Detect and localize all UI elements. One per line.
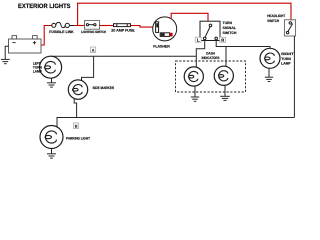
svg-text:HEADLIGHT: HEADLIGHT xyxy=(267,14,286,18)
wire L terminal to left circuit junction xyxy=(196,41,204,68)
ground dash lamp right xyxy=(220,96,230,100)
node junction at x77.5 / red riser to top feed line xyxy=(78,3,291,25)
wire lighting switch to fuse (red) xyxy=(100,25,114,27)
parking light lamp xyxy=(40,126,63,149)
fuse F1 20A xyxy=(114,24,131,27)
wire left bus to left turn lamp xyxy=(51,55,197,57)
svg-text:FLASHER: FLASHER xyxy=(153,44,170,48)
lighting switch S1 xyxy=(85,21,100,30)
svg-text:INDICATORS: INDICATORS xyxy=(202,56,221,60)
svg-text:B: B xyxy=(75,125,78,129)
wire fuse to flasher (red) xyxy=(131,26,153,28)
headlight switch S3 xyxy=(284,20,295,36)
side marker lamp xyxy=(68,80,87,99)
ground parking light xyxy=(47,154,56,158)
svg-text:DASH: DASH xyxy=(206,52,215,56)
wire side marker to node B bus xyxy=(74,99,76,118)
bottom parking bus wire xyxy=(57,118,294,127)
svg-text:SIGNAL: SIGNAL xyxy=(223,26,237,30)
wire flasher output to turn signal switch (red) xyxy=(171,13,208,21)
svg-text:20 AMP FUSE: 20 AMP FUSE xyxy=(111,28,135,32)
ground left turn lamp xyxy=(47,83,56,87)
wire R terminal to right circuit junction xyxy=(216,41,226,67)
ground dash lamp left xyxy=(191,97,199,101)
wire dash lamp left to ground xyxy=(194,86,196,97)
wire left turn lamp to ground xyxy=(51,78,53,82)
wire node A branch to side marker xyxy=(82,56,94,80)
wire battery negative to ground xyxy=(5,46,8,59)
node A xyxy=(91,47,96,53)
svg-text:A: A xyxy=(92,49,95,53)
dash indicators box (dashed) xyxy=(176,61,246,92)
wire parking light to ground xyxy=(51,149,53,154)
svg-text:RIGHT: RIGHT xyxy=(281,52,295,56)
dash indicator lamp right xyxy=(214,66,233,85)
svg-text:LAMP: LAMP xyxy=(33,70,42,74)
svg-text:LAMP: LAMP xyxy=(281,62,291,66)
svg-text:TURN: TURN xyxy=(223,21,233,25)
node B xyxy=(74,123,79,129)
svg-text:SWITCH: SWITCH xyxy=(223,31,237,35)
fusible link FL xyxy=(52,22,75,27)
wire right turn lamp to ground xyxy=(268,68,270,77)
svg-text:EXTERIOR LIGHTS: EXTERIOR LIGHTS xyxy=(18,3,71,10)
flasher U1 xyxy=(153,17,177,41)
wire dash lamp right to ground xyxy=(224,85,226,96)
dash indicator lamp left xyxy=(184,67,203,86)
left turn lamp xyxy=(40,56,62,78)
wire battery positive feed (red) xyxy=(41,26,52,46)
ground battery xyxy=(1,59,10,63)
wire headlight switch to parking bus xyxy=(293,36,295,118)
svg-text:R: R xyxy=(221,38,224,43)
svg-text:PARKING LIGHT: PARKING LIGHT xyxy=(66,137,91,141)
battery B1 xyxy=(9,36,42,53)
svg-text:FUSIBLE LINK: FUSIBLE LINK xyxy=(49,30,74,34)
svg-text:TURN: TURN xyxy=(281,57,291,61)
svg-text:SWITCH: SWITCH xyxy=(267,19,279,23)
svg-text:LIGHTING SWITCH: LIGHTING SWITCH xyxy=(81,30,107,34)
turn signal switch S2 xyxy=(200,21,220,40)
ground right turn lamp xyxy=(265,77,273,81)
node L xyxy=(195,37,201,42)
right turn lamp xyxy=(260,48,280,68)
node R xyxy=(220,37,226,42)
wire right bus to right turn lamp xyxy=(226,47,270,49)
svg-text:SIDE MARKER: SIDE MARKER xyxy=(93,86,115,90)
wire fusible link to lighting switch (red) xyxy=(74,25,84,27)
